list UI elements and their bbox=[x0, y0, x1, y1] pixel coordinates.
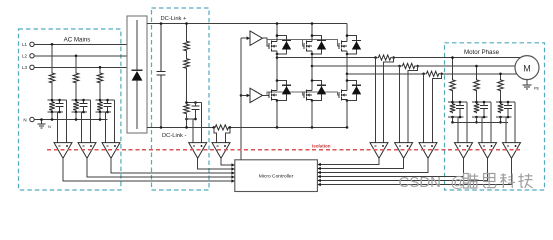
resistor R2a (upper) bbox=[73, 72, 79, 84]
isolation boundary dashed line bbox=[47, 149, 523, 151]
wire U8 output to micro controller bbox=[317, 158, 428, 172]
resistor R16 bbox=[498, 103, 504, 114]
resistor R12 (upper) bbox=[474, 79, 480, 93]
motor sense network C: bus drop bbox=[500, 74, 502, 79]
capacitor C3 bbox=[107, 100, 109, 103]
AC sense network phase L2: bus drop bbox=[75, 56, 77, 72]
RC network A: top bar bbox=[448, 101, 467, 103]
AC sense network phase L1: bus drop bbox=[51, 44, 53, 72]
svg-text:L2: L2 bbox=[22, 54, 28, 59]
amplifier U6 (phase A current sense) input wires bbox=[375, 58, 377, 143]
comparator U9 (motor phase A monitor) bbox=[455, 143, 473, 159]
svg-text:PE: PE bbox=[534, 86, 540, 91]
capacitor C2 bbox=[83, 100, 85, 103]
sense tap wires L1 bbox=[57, 112, 59, 143]
divider tap wire to comparator U4 bbox=[201, 103, 203, 143]
amplifier U6 bbox=[370, 143, 388, 159]
wire to DC- rail leg 1 bbox=[276, 101, 278, 128]
wire to N rail bbox=[99, 112, 101, 120]
DC-Link + rail bbox=[147, 23, 347, 25]
wire U3 output to micro controller bbox=[111, 158, 235, 173]
RC network C: top bar bbox=[496, 101, 515, 103]
resistor R13 (upper) bbox=[498, 79, 504, 93]
svg-text:N: N bbox=[48, 124, 51, 129]
svg-text:L3: L3 bbox=[22, 65, 28, 70]
wire to N rail bbox=[75, 112, 77, 120]
phase node wire leg 2 bbox=[311, 54, 313, 81]
wire U10 output to micro controller bbox=[317, 158, 487, 180]
wire U5 output to micro controller bbox=[221, 158, 235, 165]
resistor R14 bbox=[450, 103, 456, 114]
sense resistor R8 phase A bbox=[377, 55, 392, 60]
RC snubber L3: top bar bbox=[96, 99, 115, 101]
RC snubber L1: bottom bar bbox=[48, 111, 64, 113]
comparator U11 (motor phase C monitor) bbox=[503, 143, 521, 159]
RC snubber L2: top bar bbox=[72, 99, 91, 101]
DC-Link section dashed box bbox=[152, 8, 210, 190]
rectifier block bbox=[127, 16, 147, 133]
low-side gate bus bbox=[263, 94, 269, 96]
svg-text:DC-Link -: DC-Link - bbox=[162, 133, 187, 139]
svg-text:DC-Link +: DC-Link + bbox=[161, 16, 188, 22]
svg-text:Motor Phase: Motor Phase bbox=[464, 49, 500, 56]
comparator U3 (AC phase L3 monitor) bbox=[102, 143, 120, 159]
transistor Q4 (low side) with body diode bbox=[268, 92, 270, 98]
resistor R1b bbox=[49, 101, 55, 112]
amplifier U7 bbox=[395, 143, 413, 159]
transistor Q5 (low side) with body diode bbox=[303, 92, 305, 98]
wire U1 output to micro controller bbox=[63, 158, 235, 181]
watermark CJK char 4 bbox=[518, 174, 532, 189]
AC sense network phase L3: bus drop bbox=[99, 67, 101, 72]
phase C line bbox=[347, 73, 424, 75]
comparator U10 (motor phase B monitor) bbox=[479, 143, 497, 159]
watermark CJK char 3 bbox=[500, 174, 515, 189]
wire U7 output to micro controller bbox=[317, 158, 403, 168]
DC bus capacitor C4 bbox=[160, 24, 162, 72]
PE ground below motor bbox=[526, 80, 528, 85]
wire to common rail bbox=[500, 117, 502, 122]
amplifier U8 bbox=[419, 143, 437, 159]
filter resistor R6 bbox=[184, 103, 190, 115]
inverter leg 2: wire from DC+ rail bbox=[311, 24, 313, 36]
wire to common rail bbox=[452, 117, 454, 122]
capacitor C8 bbox=[507, 102, 509, 105]
capacitor C1 bbox=[59, 100, 61, 103]
resistor R11 (upper) bbox=[450, 79, 456, 93]
shunt resistor R7 in DC-Link - rail bbox=[214, 125, 230, 130]
comparator U1 (AC phase L1 monitor) bbox=[54, 143, 72, 159]
wire U9 output to micro controller bbox=[317, 158, 463, 176]
svg-text:CSDN: CSDN bbox=[399, 174, 442, 191]
filter capacitor C5 bbox=[195, 103, 197, 107]
comparator U2 (AC phase L2 monitor) bbox=[78, 143, 96, 159]
inverter leg 1: wire from DC+ rail bbox=[276, 24, 278, 36]
motor sense network A: bus drop bbox=[452, 58, 454, 79]
amplifier U7 (phase B current sense) input wires bbox=[399, 66, 401, 143]
high-side gate bus bbox=[263, 38, 269, 46]
watermark CJK char 2 bbox=[483, 174, 496, 188]
branch to driver A2 bbox=[240, 94, 243, 97]
micro controller U10 bbox=[235, 160, 318, 192]
Motor Phase section dashed box bbox=[445, 43, 545, 190]
phase A line bbox=[277, 57, 376, 59]
svg-text:Isolation: Isolation bbox=[312, 144, 331, 149]
wire U2 output to micro controller bbox=[87, 158, 235, 177]
phase B line bbox=[312, 65, 400, 67]
capacitor C7 bbox=[483, 102, 485, 105]
RC network A: bottom bar bbox=[448, 116, 464, 118]
sense tap wires A bbox=[457, 117, 459, 143]
svg-text:L1: L1 bbox=[22, 42, 28, 47]
wire to N rail bbox=[51, 112, 53, 120]
resistor R1a (upper) bbox=[49, 72, 55, 84]
sense tap wires L2 bbox=[81, 112, 83, 143]
sense resistor R9 phase B bbox=[401, 63, 416, 68]
svg-text:AC Mains: AC Mains bbox=[64, 37, 91, 44]
wire U4 output to micro controller bbox=[198, 158, 235, 169]
wire U11 output to micro controller bbox=[317, 158, 511, 184]
sense tap wires L3 bbox=[105, 112, 107, 143]
motor sense common rail bbox=[453, 121, 509, 123]
transistor Q6 (low side) with body diode bbox=[338, 92, 340, 98]
phase node wire leg 3 bbox=[346, 54, 348, 81]
wire to common rail bbox=[476, 117, 478, 122]
wire L2 to rectifier bbox=[34, 55, 127, 57]
svg-text:N: N bbox=[23, 117, 26, 122]
motor M1 bbox=[515, 56, 539, 80]
resistor R3b bbox=[97, 101, 103, 112]
wire L1 to rectifier bbox=[34, 43, 127, 45]
transistor Q1 (high side) with body diode bbox=[268, 43, 270, 49]
sense tap wires B bbox=[481, 117, 483, 143]
RC network B: bottom bar bbox=[472, 116, 488, 118]
reference tap wire to comparator U4 bbox=[192, 119, 194, 143]
DC-link divider resistor R4 bbox=[186, 24, 188, 41]
transistor Q2 (high side) with body diode bbox=[303, 43, 305, 49]
comparator U5 (DC-link current monitor) bbox=[212, 143, 230, 159]
gate driver A1 (high side) bbox=[250, 31, 263, 45]
amplifier U8 (phase C current sense) input wires bbox=[423, 74, 425, 143]
wire N rail bbox=[34, 119, 107, 121]
watermark CJK char 1 bbox=[464, 174, 479, 189]
DC-Link - rail bbox=[147, 126, 214, 128]
ground symbol on N rail bbox=[41, 120, 43, 125]
divider filter: top bar + tap bbox=[187, 102, 202, 104]
svg-text:M: M bbox=[523, 64, 531, 74]
DC-link divider resistor R5 bbox=[186, 52, 188, 58]
resistor R15 bbox=[474, 103, 480, 114]
resistor R3a (upper) bbox=[97, 72, 103, 84]
phase node wire leg 1 bbox=[276, 54, 278, 81]
RC snubber L3: bottom bar bbox=[96, 111, 112, 113]
wire to DC- rail leg 2 bbox=[311, 101, 313, 128]
comparator U4 (DC-link voltage monitor) bbox=[189, 143, 207, 159]
transistor Q3 (high side) with body diode bbox=[338, 43, 340, 49]
resistor R2b bbox=[73, 101, 79, 112]
RC network B: top bar bbox=[472, 101, 491, 103]
RC network C: bottom bar bbox=[496, 116, 512, 118]
wire L3 to rectifier bbox=[34, 66, 127, 68]
diode D1 inside rectifier bbox=[136, 20, 138, 70]
svg-text:Micro Controller: Micro Controller bbox=[259, 174, 294, 180]
capacitor C6 bbox=[459, 102, 461, 105]
sense tap wires C bbox=[505, 117, 507, 143]
gate control riser from micro controller bbox=[240, 38, 242, 160]
sense resistor R10 phase C bbox=[425, 71, 440, 76]
wire to DC- rail leg 3 bbox=[346, 101, 348, 128]
arrow into driver A1 bbox=[241, 37, 247, 39]
motor sense network B: bus drop bbox=[476, 66, 478, 79]
inverter leg 3: wire from DC+ rail bbox=[346, 24, 348, 36]
AC Mains section dashed box bbox=[19, 29, 121, 190]
RC snubber L1: top bar bbox=[48, 99, 67, 101]
RC snubber L2: bottom bar bbox=[72, 111, 88, 113]
wire U6 output to micro controller bbox=[317, 158, 379, 164]
shunt sense wires to comparator U5 bbox=[214, 127, 217, 142]
gate driver A2 (low side) bbox=[250, 88, 263, 102]
filter bottom bar bbox=[187, 118, 196, 120]
